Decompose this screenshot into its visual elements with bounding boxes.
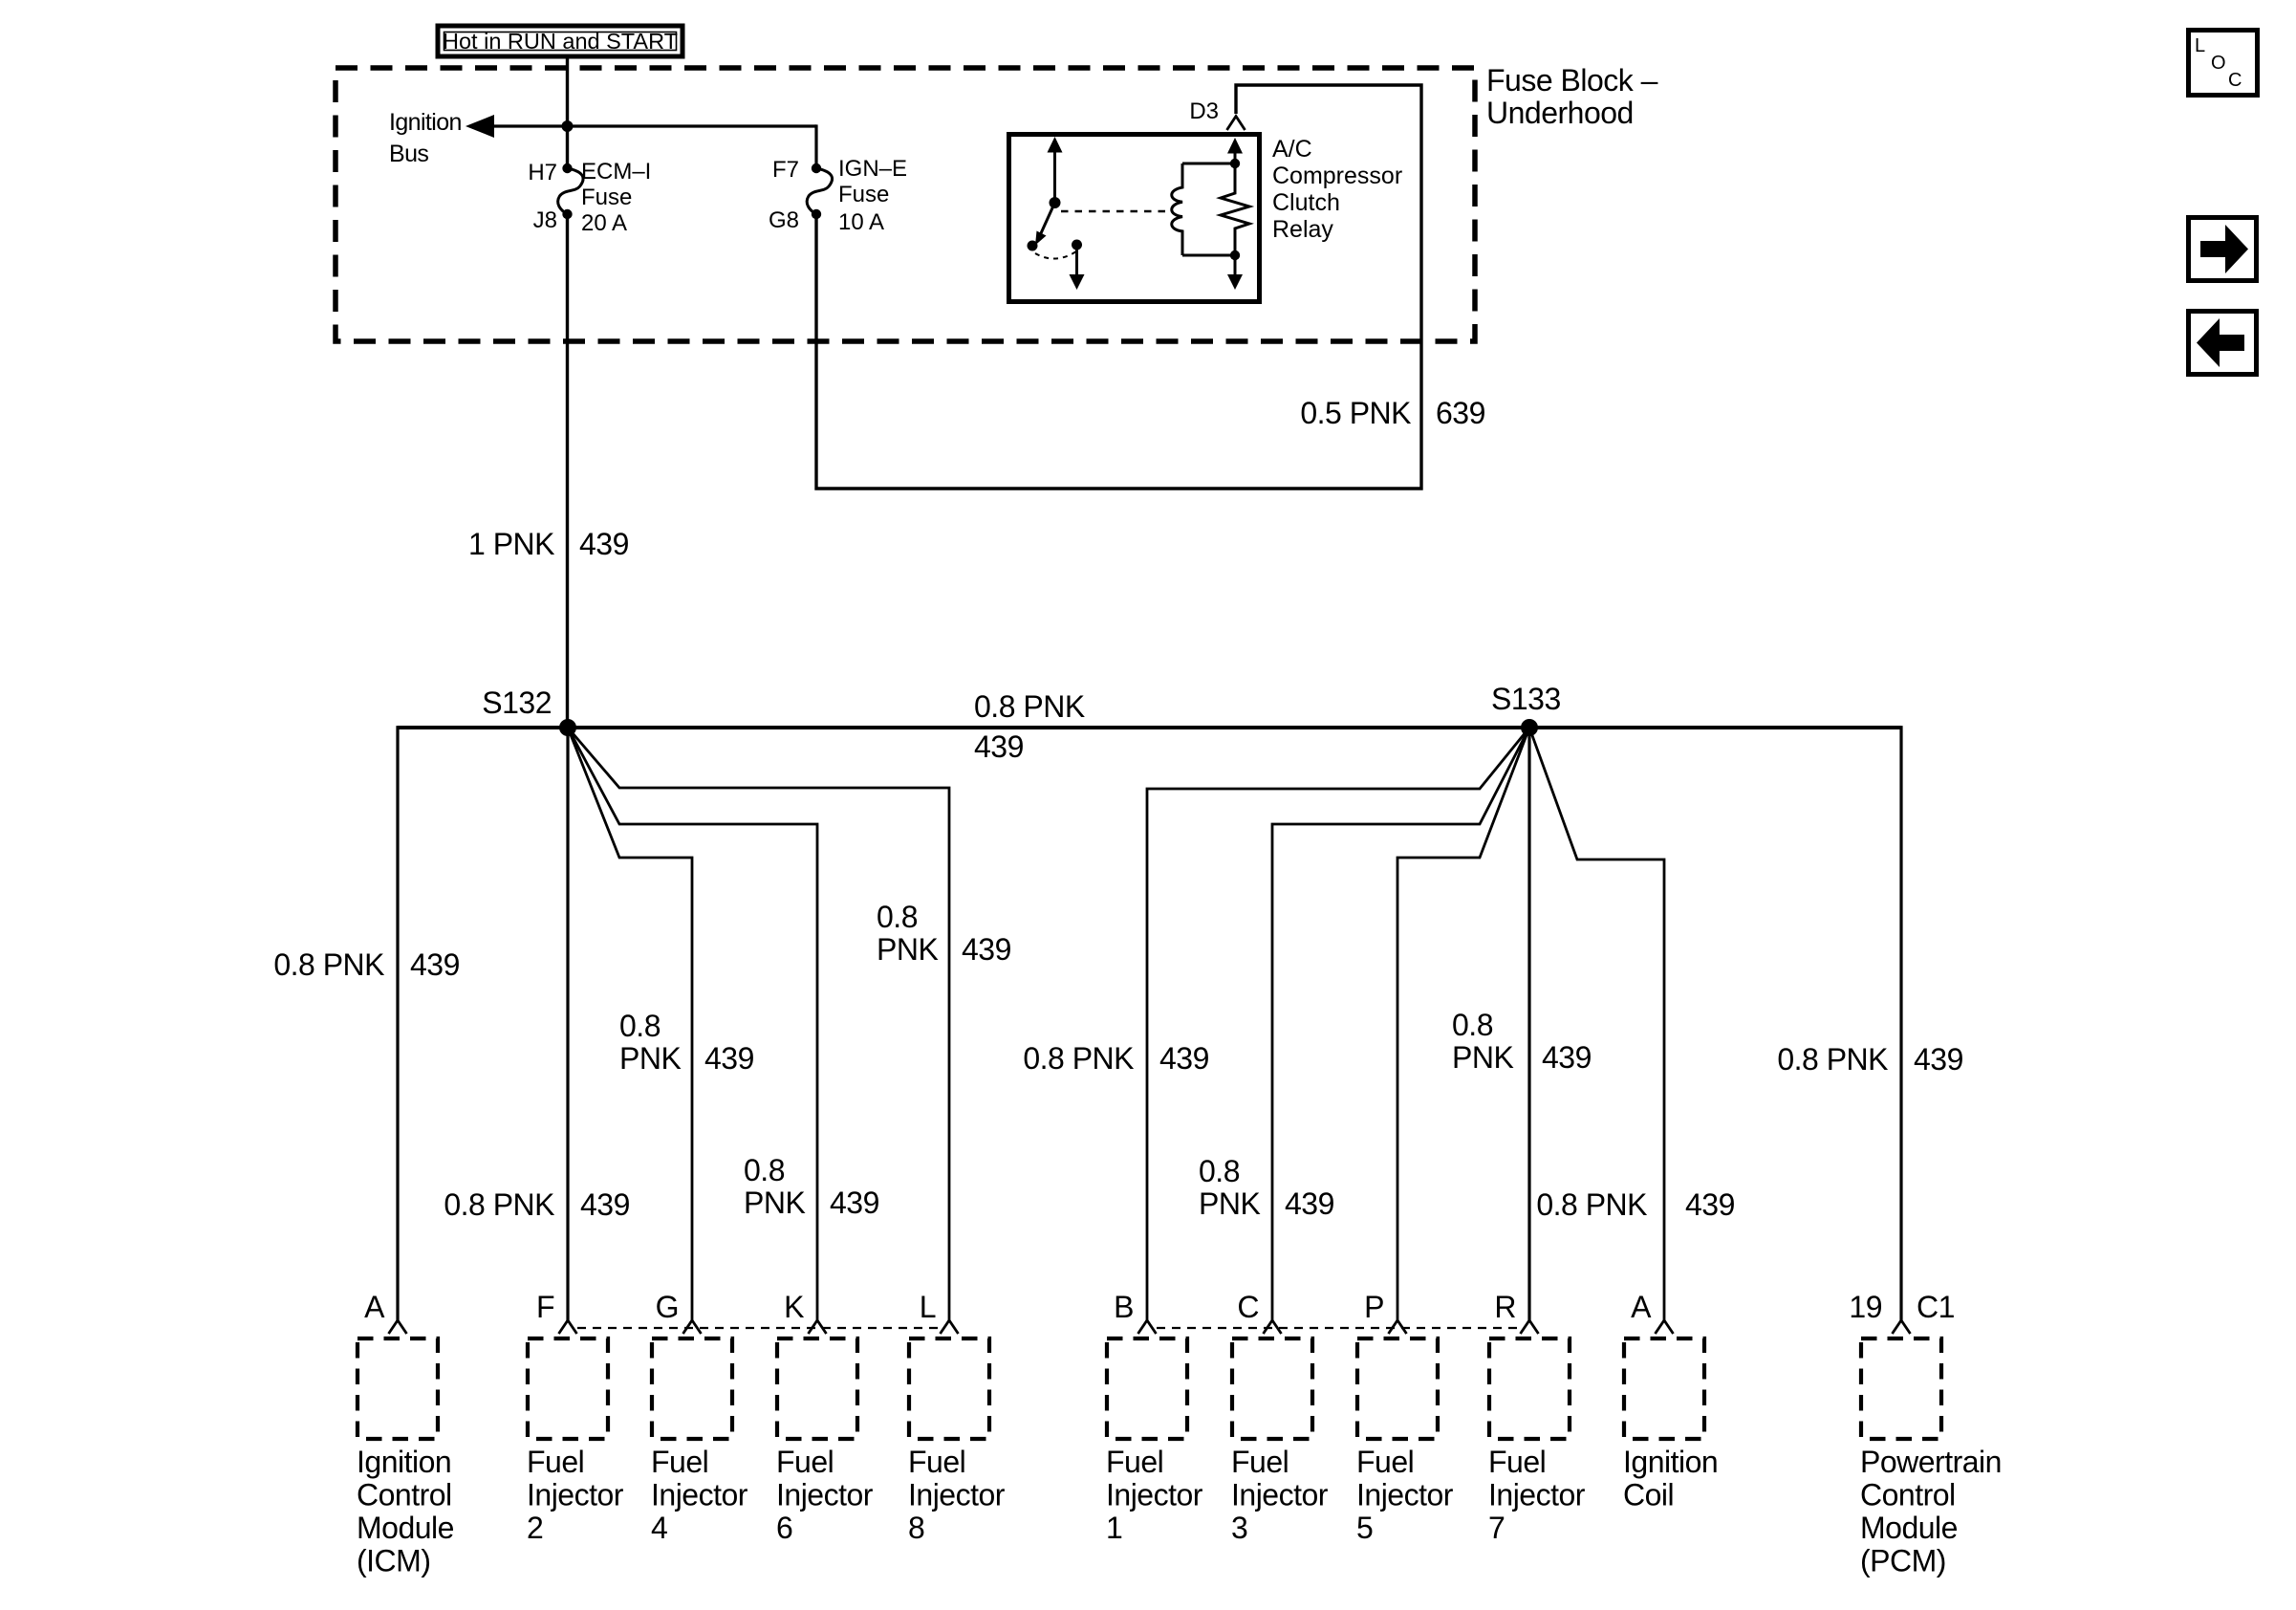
wire: branch to Fuel Injector 7 terminal R	[1527, 728, 1530, 1320]
svg-text:Injector: Injector	[651, 1478, 748, 1512]
svg-text:(PCM): (PCM)	[1860, 1544, 1946, 1578]
wire label: 0.8 PNK 439 (PCM 19)	[1777, 1042, 1963, 1077]
svg-text:0.5 PNK: 0.5 PNK	[1300, 396, 1411, 430]
svg-text:439: 439	[974, 729, 1024, 764]
svg-text:C: C	[2228, 70, 2242, 91]
svg-text:A/C: A/C	[1272, 136, 1312, 163]
terminal chevron L at x=993	[941, 1320, 959, 1334]
component box: Fuel Injector 3	[1232, 1338, 1312, 1439]
svg-text:10 A: 10 A	[838, 209, 884, 235]
component label: Fuel Injector 7	[1488, 1445, 1586, 1545]
splice S132 dot	[559, 719, 576, 736]
svg-text:D3: D3	[1189, 98, 1219, 124]
junction dot on feed wire at ignition bus	[562, 120, 574, 132]
svg-text:Fuel: Fuel	[651, 1445, 708, 1479]
wire: 0.5 PNK 639 routing from IGN-E fuse to relay terminal D3	[816, 85, 1421, 489]
wire: branch to Ignition Coil terminal A	[1529, 728, 1664, 1320]
svg-text:Ignition: Ignition	[357, 1445, 451, 1479]
svg-text:439: 439	[579, 527, 629, 561]
svg-text:Relay: Relay	[1272, 216, 1333, 243]
fuse IGN-E element (S-curve)	[807, 168, 832, 214]
svg-text:IGN–E: IGN–E	[838, 156, 907, 182]
wire: ignition bus horizontal	[491, 124, 816, 127]
wire: battery feed from Hot box down to ECM-I fuse	[566, 56, 569, 168]
svg-text:R: R	[1494, 1290, 1516, 1324]
svg-text:0.8 PNK: 0.8 PNK	[974, 689, 1085, 724]
svg-text:C: C	[1237, 1290, 1259, 1324]
wire label: 0.8 PNK / 439 on bus	[974, 689, 1085, 764]
svg-text:Injector: Injector	[1356, 1478, 1454, 1512]
svg-text:439: 439	[580, 1187, 630, 1222]
wire label: 1 PNK / 439	[468, 527, 629, 561]
wire label: 0.8 PNK 439 (ICM A)	[273, 947, 460, 982]
component label: Fuel Injector 8	[908, 1445, 1006, 1545]
svg-text:Control: Control	[357, 1478, 452, 1512]
svg-text:Fuel: Fuel	[527, 1445, 584, 1479]
dashed connector link F-G-K-L	[577, 1327, 941, 1329]
wire label: 0.5 PNK / 639	[1300, 396, 1485, 430]
wire: branch to Fuel Injector 6 terminal K	[568, 728, 817, 1320]
component label: Fuel Injector 1	[1106, 1445, 1203, 1545]
component label: Ignition Control Module (ICM)	[357, 1445, 454, 1578]
wire label: 0.8 PNK 439 (injector 6 K)	[744, 1153, 879, 1220]
svg-text:439: 439	[830, 1186, 879, 1220]
svg-text:0.8 PNK: 0.8 PNK	[1777, 1042, 1888, 1077]
svg-text:A: A	[364, 1290, 385, 1324]
terminal chevron D3 on relay	[1227, 117, 1245, 131]
svg-text:PNK: PNK	[1452, 1040, 1513, 1075]
terminal chevron R at x=1600	[1521, 1320, 1539, 1334]
svg-text:439: 439	[1685, 1187, 1735, 1222]
svg-text:0.8: 0.8	[619, 1009, 661, 1043]
relay switch common arrow (up)	[1048, 137, 1063, 203]
svg-text:Injector: Injector	[908, 1478, 1006, 1512]
wire label: 0.8 PNK 439 (injector 2 F)	[444, 1187, 630, 1222]
wire: branch to Fuel Injector 1 terminal B	[1147, 728, 1529, 1320]
relay coil top link and dot	[1182, 159, 1240, 168]
svg-text:F7: F7	[772, 157, 799, 183]
terminal chevron C at x=1331	[1264, 1320, 1282, 1334]
svg-text:Fuel: Fuel	[1356, 1445, 1414, 1479]
relay box: A/C Compressor Clutch Relay	[1009, 135, 1260, 302]
svg-text:Fuel: Fuel	[1231, 1445, 1289, 1479]
wire: 1 PNK 439 from fuse to splice S132	[566, 214, 569, 728]
svg-text:S132: S132	[482, 685, 552, 720]
svg-text:Injector: Injector	[1106, 1478, 1203, 1512]
svg-text:0.8: 0.8	[744, 1153, 785, 1187]
wire label: 0.8 PNK 439 (injector 7 R)	[1452, 1008, 1592, 1075]
relay suppression resistor zigzag	[1221, 163, 1249, 255]
svg-text:Fuel: Fuel	[1488, 1445, 1546, 1479]
label: A/C Compressor Clutch Relay	[1272, 136, 1402, 243]
svg-text:Fuse: Fuse	[581, 185, 632, 210]
svg-text:Underhood: Underhood	[1486, 96, 1634, 130]
arrowhead: ignition bus to left	[466, 115, 494, 138]
dashed connector link B-C-P-R	[1157, 1327, 1521, 1329]
wire: branch to Fuel Injector 4 terminal G	[568, 728, 692, 1320]
terminal chevron G at x=724	[683, 1320, 702, 1334]
wire: branch to PCM terminal 19 C1	[1899, 726, 1902, 1320]
splice S133 dot	[1521, 719, 1538, 736]
svg-text:639: 639	[1436, 396, 1485, 430]
component box: Fuel Injector 1	[1107, 1338, 1187, 1439]
wire: ignition bus branch down to IGN-E fuse	[814, 124, 817, 168]
component label: Fuel Injector 2	[527, 1445, 624, 1545]
relay coil feed arrow (up to D3)	[1227, 138, 1243, 163]
svg-text:439: 439	[1285, 1186, 1334, 1221]
svg-text:4: 4	[651, 1511, 667, 1545]
wire label: 0.8 PNK 439 (injector 8 L)	[877, 900, 1011, 967]
svg-text:Module: Module	[357, 1511, 454, 1545]
relay switch pivot dot	[1050, 197, 1061, 208]
svg-text:0.8: 0.8	[1199, 1154, 1240, 1188]
svg-text:20 A: 20 A	[581, 210, 627, 236]
svg-text:2: 2	[527, 1511, 543, 1545]
svg-text:J8: J8	[533, 207, 557, 233]
svg-text:1: 1	[1106, 1511, 1122, 1545]
value label: ECM-I Fuse 20 A	[581, 159, 651, 236]
wire: branch to ICM terminal A	[396, 726, 399, 1320]
component label: Fuel Injector 5	[1356, 1445, 1454, 1545]
svg-text:O: O	[2211, 53, 2226, 74]
relay coil actuation dashed link	[1061, 210, 1168, 212]
svg-text:439: 439	[1159, 1041, 1209, 1076]
fuse IGN-E terminal dot G8	[812, 209, 821, 219]
wire label: 0.8 PNK 439 (injector 4 G)	[619, 1009, 754, 1076]
svg-text:Fuel: Fuel	[1106, 1445, 1163, 1479]
component label: Fuel Injector 3	[1231, 1445, 1329, 1545]
terminal chevron A at x=416	[389, 1320, 407, 1334]
fuse IGN-E terminal dot F7	[812, 163, 821, 173]
svg-text:Injector: Injector	[776, 1478, 874, 1512]
wire: 0.8 PNK 439 bus between splices	[398, 726, 1901, 729]
component box: Ignition Control Module (ICM)	[357, 1338, 438, 1439]
svg-text:Powertrain: Powertrain	[1860, 1445, 2002, 1479]
terminal chevron K at x=855	[809, 1320, 827, 1334]
terminal chevron P at x=1462	[1389, 1320, 1407, 1334]
component label: Powertrain Control Module (PCM)	[1860, 1445, 2002, 1578]
svg-text:439: 439	[1914, 1042, 1963, 1077]
icon box: LOC legend	[2189, 31, 2258, 96]
svg-text:H7: H7	[528, 160, 557, 185]
terminal chevron B at x=1200	[1138, 1320, 1157, 1334]
wire: branch to Fuel Injector 3 terminal C	[1272, 728, 1529, 1320]
wire label: 0.8 PNK 439 (ignition coil A)	[1536, 1187, 1735, 1222]
svg-text:G: G	[656, 1290, 679, 1324]
component label: Fuel Injector 6	[776, 1445, 874, 1545]
svg-text:P: P	[1364, 1290, 1384, 1324]
svg-text:Injector: Injector	[1488, 1478, 1586, 1512]
value label: IGN-E Fuse 10 A	[838, 156, 907, 235]
svg-text:Injector: Injector	[527, 1478, 624, 1512]
component box: Ignition Coil	[1624, 1338, 1704, 1439]
svg-text:Hot in RUN and START: Hot in RUN and START	[443, 29, 678, 54]
svg-text:PNK: PNK	[877, 932, 938, 967]
svg-text:(ICM): (ICM)	[357, 1544, 430, 1578]
svg-text:Injector: Injector	[1231, 1478, 1329, 1512]
relay coil bottom link and dot	[1182, 250, 1240, 260]
svg-text:Fuel: Fuel	[776, 1445, 834, 1479]
relay switch movable arm with arrowhead	[1035, 203, 1055, 246]
svg-text:0.8 PNK: 0.8 PNK	[444, 1187, 554, 1222]
svg-text:0.8 PNK: 0.8 PNK	[1536, 1187, 1647, 1222]
svg-text:0.8: 0.8	[1452, 1008, 1493, 1042]
component label: Fuel Injector 4	[651, 1445, 748, 1545]
label: Fuse Block - Underhood	[1486, 63, 1658, 130]
component box: Fuel Injector 2	[528, 1338, 608, 1439]
component box: Fuel Injector 6	[777, 1338, 857, 1439]
svg-text:ECM–I: ECM–I	[581, 159, 651, 185]
component box: Fuel Injector 7	[1489, 1338, 1570, 1439]
svg-text:PNK: PNK	[744, 1186, 805, 1220]
svg-text:3: 3	[1231, 1511, 1247, 1545]
component label: Ignition Coil	[1623, 1445, 1718, 1512]
fuse ECM-I terminal dot J8	[562, 209, 572, 219]
component box: Powertrain Control Module (PCM)	[1861, 1338, 1941, 1439]
svg-text:Control: Control	[1860, 1478, 1956, 1512]
svg-text:439: 439	[1542, 1040, 1592, 1075]
svg-text:Clutch: Clutch	[1272, 189, 1340, 216]
svg-text:L: L	[2195, 35, 2205, 56]
svg-text:S133: S133	[1491, 682, 1561, 716]
svg-text:C1: C1	[1917, 1290, 1955, 1324]
svg-text:0.8 PNK: 0.8 PNK	[1023, 1041, 1134, 1076]
svg-text:Module: Module	[1860, 1511, 1958, 1545]
svg-text:1 PNK: 1 PNK	[468, 527, 554, 561]
svg-text:6: 6	[776, 1511, 792, 1545]
component box: Fuel Injector 8	[909, 1338, 989, 1439]
svg-text:K: K	[784, 1290, 804, 1324]
svg-text:Bus: Bus	[389, 141, 428, 167]
component box: Fuel Injector 5	[1357, 1338, 1438, 1439]
svg-text:PNK: PNK	[1199, 1186, 1260, 1221]
label: Ignition Bus	[389, 109, 462, 167]
svg-text:439: 439	[410, 947, 460, 982]
svg-text:19: 19	[1849, 1290, 1882, 1324]
svg-text:Compressor: Compressor	[1272, 163, 1402, 189]
svg-text:A: A	[1631, 1290, 1652, 1324]
svg-text:439: 439	[962, 932, 1011, 967]
wire label: 0.8 PNK 439 (injector 1 B)	[1023, 1041, 1209, 1076]
relay switch NC contact dot	[1072, 240, 1082, 250]
terminal chevron A at x=1741	[1656, 1320, 1674, 1334]
icon box: arrow right	[2189, 218, 2257, 281]
wire: branch to Fuel Injector 5 terminal P	[1397, 728, 1529, 1320]
wire: branch to Fuel Injector 2 terminal F	[566, 728, 569, 1320]
component box: Fuel Injector 4	[652, 1338, 732, 1439]
icon box: arrow left	[2189, 312, 2257, 375]
svg-text:5: 5	[1356, 1511, 1373, 1545]
svg-text:0.8: 0.8	[877, 900, 918, 934]
terminal chevron F at x=594	[559, 1320, 577, 1334]
svg-text:Fuse Block –: Fuse Block –	[1486, 63, 1658, 98]
svg-text:Fuel: Fuel	[908, 1445, 965, 1479]
fuse block underhood dashed border	[336, 68, 1475, 341]
relay coil ground arrow (down)	[1227, 255, 1243, 290]
fuse ECM-I element (S-curve)	[558, 168, 583, 214]
terminal chevron 19 at x=1989	[1893, 1320, 1911, 1334]
svg-text:L: L	[920, 1290, 936, 1324]
svg-text:7: 7	[1488, 1511, 1505, 1545]
svg-text:Fuse: Fuse	[838, 182, 889, 207]
svg-text:439: 439	[704, 1041, 754, 1076]
svg-text:F: F	[536, 1290, 554, 1324]
svg-text:Ignition: Ignition	[1623, 1445, 1718, 1479]
wire label: 0.8 PNK 439 (injector 3 C)	[1199, 1154, 1334, 1221]
relay switch NO contact dot	[1028, 241, 1038, 251]
relay switch travel dashed arc	[1035, 251, 1076, 259]
relay output arrow (down)	[1070, 245, 1085, 290]
svg-text:PNK: PNK	[619, 1041, 681, 1076]
svg-text:Ignition: Ignition	[389, 109, 462, 136]
power label box: Hot in RUN and START	[438, 26, 682, 56]
svg-text:8: 8	[908, 1511, 924, 1545]
wire: branch to Fuel Injector 8 terminal L	[568, 728, 949, 1320]
svg-text:Coil: Coil	[1623, 1478, 1674, 1512]
svg-text:0.8 PNK: 0.8 PNK	[273, 947, 384, 982]
fuse ECM-I 20A terminal dot H7	[562, 163, 572, 173]
relay coil winding	[1172, 163, 1182, 255]
svg-text:B: B	[1114, 1290, 1134, 1324]
svg-text:G8: G8	[769, 207, 799, 233]
